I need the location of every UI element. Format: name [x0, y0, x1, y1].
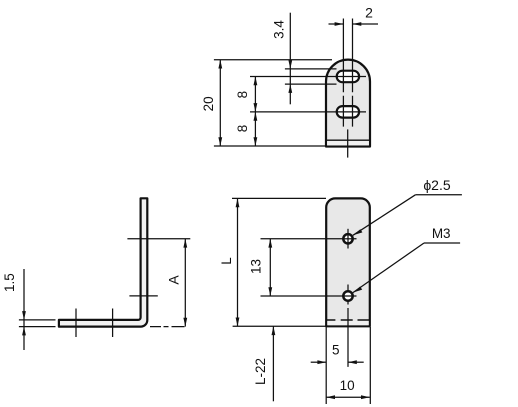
dimension 20 arrow top [218, 60, 222, 69]
front view right edge extension down [369, 327, 371, 404]
side view L-profile outline [59, 198, 147, 326]
side view hole1 position tick / A extension [127, 238, 190, 240]
front view bend strip (white) [327, 321, 368, 326]
dimension 20 extension line bottom [214, 145, 325, 147]
dimension 2 line left segment [329, 23, 344, 25]
dimension 3.4 arrow lower [288, 84, 292, 93]
dimension 10 arrow right [361, 395, 370, 399]
slot extreme-center vertical line right [352, 19, 354, 127]
dimension 5 line left segment [311, 361, 327, 363]
dimension A arrow bottom [183, 318, 187, 327]
front view bend line dashed [326, 319, 370, 321]
top view bottom centerline [347, 129, 349, 157]
dimension 2 arrow left [335, 22, 344, 26]
svg-text:20: 20 [201, 96, 216, 111]
dimension L-22 line [272, 326, 274, 401]
dimension 5 arrow right [348, 360, 357, 364]
hole 1 inner cross horizontal [343, 238, 352, 240]
dimension 1.5 extension line upper [19, 319, 56, 321]
front view body [326, 198, 370, 326]
leader M3 arrow [353, 287, 362, 293]
dimension A line [184, 239, 186, 327]
slot hole 2 (obround) [337, 106, 359, 118]
dimension 3.4 arrow upper [288, 60, 292, 69]
dimension 20 line [219, 60, 221, 146]
dimension 1.5 extension line lower [19, 326, 56, 328]
hole 1 centerline horizontal [261, 238, 357, 240]
svg-text:2: 2 [365, 4, 373, 20]
leader M3 horizontal [424, 242, 460, 244]
dimension 1.5 line [23, 269, 25, 350]
svg-text:8: 8 [235, 125, 250, 133]
top view bend strip (white) [327, 141, 369, 146]
dimension 2 line right segment [353, 23, 379, 25]
dimension 13 arrow bottom [268, 287, 272, 296]
svg-text:10: 10 [340, 378, 355, 393]
top view body outline [326, 60, 370, 147]
dimension 8 upper arrow top [254, 77, 258, 86]
svg-text:A: A [166, 275, 182, 285]
dimension L arrow bottom [236, 318, 240, 327]
dimension L / L-22 extension line bottom [233, 325, 327, 327]
top view bend line [326, 139, 370, 141]
svg-text:L-22: L-22 [253, 358, 268, 385]
svg-text:13: 13 [249, 259, 264, 274]
hole 2 centerline horizontal [261, 295, 357, 297]
dimension 13 line [269, 239, 271, 296]
dimension 10 line [326, 396, 370, 398]
side view slot2 position tick [112, 309, 114, 338]
dimension 3.4 extension line lower [285, 83, 337, 85]
dimension 8 bottom arrow [254, 137, 258, 146]
dimension L extension line top [232, 197, 326, 199]
slot 1 horizontal centerline [250, 76, 366, 78]
slot hole 1 (obround) [337, 71, 359, 83]
hole 2 centerline vertical [347, 285, 349, 367]
dimension L-22 arrow [272, 326, 276, 335]
dimension 1.5 arrow upper [22, 311, 26, 320]
hole 2 inner cross horizontal [343, 295, 352, 297]
dimension 3.4 line [289, 13, 291, 105]
svg-text:5: 5 [332, 343, 340, 358]
hole 2 circle [343, 291, 352, 300]
leader phi2.5 horizontal [415, 194, 462, 196]
slot extreme-center vertical line left [342, 19, 344, 127]
dimension A arrow top [183, 239, 187, 248]
side view slot1 position tick [75, 309, 77, 338]
leader phi2.5 diagonal [353, 195, 416, 236]
hole 1 circle [343, 234, 352, 243]
dimension 13 arrow top [268, 239, 272, 248]
side view hole2 position tick [129, 295, 157, 297]
svg-text:8: 8 [235, 91, 250, 99]
dimension 2 arrow right [353, 22, 362, 26]
dimension 20 arrow bottom [218, 137, 222, 146]
svg-text:M3: M3 [432, 226, 451, 241]
svg-text:ϕ2.5: ϕ2.5 [423, 177, 451, 193]
svg-text:1.5: 1.5 [2, 273, 17, 292]
hole 1 inner cross vertical [347, 234, 349, 243]
front view left edge extension down [325, 327, 327, 404]
dimension L line [237, 198, 239, 326]
dimension L arrow top [236, 198, 240, 207]
dimension 3.4 extension line upper [285, 68, 337, 70]
dimension 1.5 arrow lower [22, 327, 26, 336]
leader M3 diagonal [353, 243, 424, 293]
dimension 20 extension line top [214, 59, 332, 61]
dimension 5 arrow left [317, 360, 326, 364]
dimension 10 arrow left [326, 395, 335, 399]
side view bottom dash-dot extension [150, 326, 191, 328]
dimension 8 (stacked) line [254, 77, 256, 147]
svg-text:L: L [219, 257, 234, 265]
svg-text:3.4: 3.4 [272, 20, 287, 39]
leader phi2.5 arrow [353, 229, 363, 235]
hole 1 centerline vertical [347, 229, 349, 249]
dimension 5 line right segment [348, 361, 364, 363]
slot 2 horizontal centerline [250, 111, 366, 113]
dimension 8 middle arrow up [254, 103, 258, 112]
dimension 8 middle arrow down [254, 112, 258, 121]
